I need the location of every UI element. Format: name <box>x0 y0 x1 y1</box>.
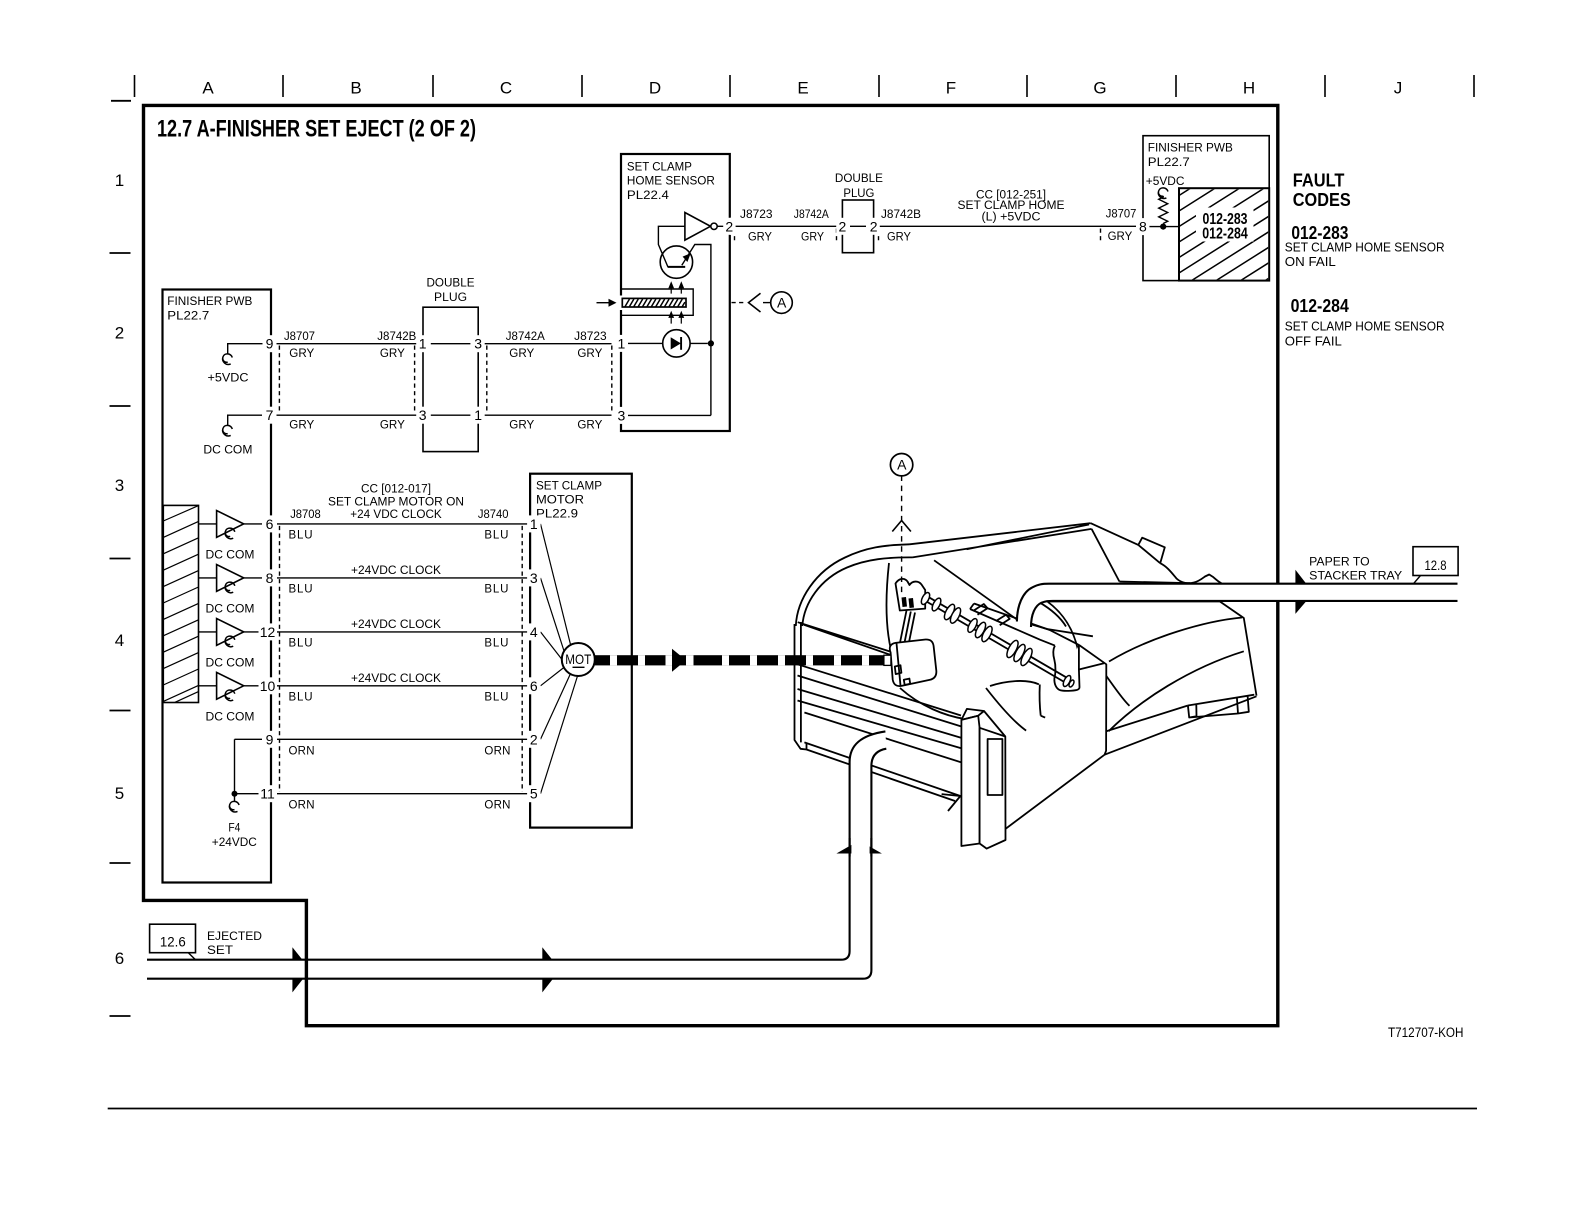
svg-text:9: 9 <box>266 336 274 352</box>
svg-text:BLU: BLU <box>289 584 313 596</box>
svg-text:SET CLAMP MOTOR ON: SET CLAMP MOTOR ON <box>328 496 464 508</box>
svg-text:BLU: BLU <box>484 584 508 596</box>
svg-text:7: 7 <box>266 407 274 423</box>
svg-text:3: 3 <box>115 476 124 495</box>
svg-text:F4: F4 <box>228 823 241 835</box>
svg-text:12: 12 <box>260 624 276 640</box>
svg-text:8: 8 <box>1139 219 1147 235</box>
svg-text:E: E <box>797 79 808 98</box>
svg-text:GRY: GRY <box>1108 231 1133 243</box>
svg-text:5: 5 <box>530 786 538 802</box>
svg-text:J8707: J8707 <box>1106 209 1137 221</box>
svg-text:B: B <box>350 79 361 98</box>
svg-text:DC COM: DC COM <box>206 550 255 562</box>
svg-text:BLU: BLU <box>484 530 508 542</box>
svg-text:3: 3 <box>419 407 427 423</box>
svg-text:1: 1 <box>419 336 427 352</box>
svg-text:6: 6 <box>530 678 538 694</box>
svg-text:J: J <box>1394 79 1403 98</box>
svg-text:8: 8 <box>266 570 274 586</box>
svg-text:PAPER TO: PAPER TO <box>1309 556 1369 568</box>
svg-text:SET CLAMP: SET CLAMP <box>627 161 692 173</box>
svg-text:PLUG: PLUG <box>434 292 467 304</box>
svg-text:DOUBLE: DOUBLE <box>427 278 475 290</box>
svg-text:H: H <box>1243 79 1255 98</box>
svg-text:1: 1 <box>474 407 482 423</box>
svg-text:1: 1 <box>115 171 124 190</box>
svg-text:A: A <box>777 295 787 311</box>
svg-text:+24VDC CLOCK: +24VDC CLOCK <box>351 619 441 631</box>
svg-text:10: 10 <box>260 678 276 694</box>
svg-text:J8723: J8723 <box>574 331 607 343</box>
svg-text:+24VDC: +24VDC <box>212 837 257 849</box>
svg-text:+24VDC CLOCK: +24VDC CLOCK <box>351 673 441 685</box>
svg-text:PL22.9: PL22.9 <box>536 508 578 520</box>
svg-text:F: F <box>946 79 956 98</box>
svg-text:1: 1 <box>530 516 538 532</box>
svg-text:DC COM: DC COM <box>206 712 255 724</box>
svg-text:SET CLAMP HOME SENSOR: SET CLAMP HOME SENSOR <box>1285 241 1445 255</box>
svg-text:3: 3 <box>474 336 482 352</box>
svg-text:FINISHER PWB: FINISHER PWB <box>167 296 252 308</box>
svg-text:J8742B: J8742B <box>881 209 921 221</box>
svg-text:GRY: GRY <box>380 419 405 431</box>
svg-text:SET: SET <box>207 945 233 957</box>
svg-text:PL22.4: PL22.4 <box>627 190 670 202</box>
svg-text:2: 2 <box>115 324 124 343</box>
svg-text:BLU: BLU <box>289 638 313 650</box>
svg-text:GRY: GRY <box>380 348 405 360</box>
svg-text:BLU: BLU <box>289 530 313 542</box>
svg-text:+24 VDC CLOCK: +24 VDC CLOCK <box>350 509 442 521</box>
svg-text:11: 11 <box>260 786 275 802</box>
svg-text:9: 9 <box>266 731 274 747</box>
svg-text:+5VDC: +5VDC <box>208 372 249 384</box>
svg-text:GRY: GRY <box>509 419 534 431</box>
svg-text:GRY: GRY <box>577 348 602 360</box>
svg-text:PL22.7: PL22.7 <box>167 311 209 323</box>
svg-text:CC [012-017]: CC [012-017] <box>361 483 431 495</box>
svg-text:SET CLAMP HOME: SET CLAMP HOME <box>958 200 1065 212</box>
svg-text:5: 5 <box>115 784 124 803</box>
svg-text:J8707: J8707 <box>284 331 315 343</box>
svg-text:ORN: ORN <box>289 745 315 757</box>
svg-text:MOT: MOT <box>565 651 591 667</box>
svg-text:DC COM: DC COM <box>206 658 255 670</box>
svg-text:3: 3 <box>530 570 538 586</box>
svg-text:SET CLAMP HOME SENSOR: SET CLAMP HOME SENSOR <box>1285 320 1445 334</box>
svg-text:4: 4 <box>115 631 124 650</box>
svg-text:J8723: J8723 <box>740 209 773 221</box>
svg-text:BLU: BLU <box>289 692 313 704</box>
svg-text:GRY: GRY <box>289 419 314 431</box>
svg-text:STACKER TRAY: STACKER TRAY <box>1309 570 1402 582</box>
svg-text:DOUBLE: DOUBLE <box>835 173 883 185</box>
svg-text:GRY: GRY <box>887 231 911 243</box>
svg-text:ORN: ORN <box>484 745 510 757</box>
svg-text:4: 4 <box>530 624 538 640</box>
svg-text:+24VDC CLOCK: +24VDC CLOCK <box>351 565 441 577</box>
svg-text:6: 6 <box>266 516 274 532</box>
svg-text:BLU: BLU <box>484 692 508 704</box>
svg-text:DC COM: DC COM <box>206 604 255 616</box>
svg-text:FAULT: FAULT <box>1293 169 1345 190</box>
svg-text:GRY: GRY <box>289 348 314 360</box>
svg-text:A: A <box>202 79 214 98</box>
svg-text:12.8: 12.8 <box>1425 557 1447 573</box>
svg-text:ORN: ORN <box>484 799 510 811</box>
svg-text:PLUG: PLUG <box>843 188 874 200</box>
svg-text:6: 6 <box>115 949 124 968</box>
svg-text:GRY: GRY <box>509 348 534 360</box>
svg-text:J8740: J8740 <box>478 509 509 521</box>
svg-text:G: G <box>1093 79 1106 98</box>
svg-text:J8742A: J8742A <box>794 209 829 221</box>
svg-text:D: D <box>649 79 661 98</box>
svg-text:C: C <box>500 79 512 98</box>
svg-text:2: 2 <box>530 731 538 747</box>
svg-text:J8742A: J8742A <box>506 331 545 343</box>
svg-text:+5VDC: +5VDC <box>1146 176 1185 188</box>
svg-text:GRY: GRY <box>801 232 824 244</box>
svg-text:012-284: 012-284 <box>1291 295 1350 316</box>
svg-text:1: 1 <box>618 335 626 351</box>
svg-text:SET CLAMP: SET CLAMP <box>536 481 602 493</box>
svg-text:GRY: GRY <box>577 419 602 431</box>
svg-text:BLU: BLU <box>484 638 508 650</box>
svg-text:CODES: CODES <box>1293 189 1351 210</box>
svg-text:A: A <box>897 457 907 473</box>
svg-text:T712707-KOH: T712707-KOH <box>1388 1025 1464 1040</box>
svg-text:FINISHER PWB: FINISHER PWB <box>1148 143 1233 155</box>
svg-text:J8708: J8708 <box>290 509 321 521</box>
svg-text:EJECTED: EJECTED <box>207 931 262 943</box>
svg-text:DC COM: DC COM <box>203 445 252 457</box>
svg-text:2: 2 <box>870 218 878 234</box>
svg-text:ON FAIL: ON FAIL <box>1285 255 1336 269</box>
svg-text:(L) +5VDC: (L) +5VDC <box>982 212 1041 224</box>
svg-text:GRY: GRY <box>748 232 772 244</box>
svg-text:2: 2 <box>839 218 847 234</box>
svg-text:12.7 A-FINISHER SET EJECT (2 O: 12.7 A-FINISHER SET EJECT (2 OF 2) <box>157 116 476 143</box>
svg-text:OFF FAIL: OFF FAIL <box>1285 335 1342 349</box>
svg-text:J8742B: J8742B <box>377 331 416 343</box>
svg-text:3: 3 <box>618 407 626 423</box>
svg-text:PL22.7: PL22.7 <box>1148 157 1190 169</box>
svg-text:012-284: 012-284 <box>1202 225 1248 242</box>
svg-text:12.6: 12.6 <box>160 933 186 949</box>
svg-text:ORN: ORN <box>289 799 315 811</box>
svg-text:2: 2 <box>725 218 733 234</box>
svg-text:HOME SENSOR: HOME SENSOR <box>627 176 715 188</box>
svg-text:MOTOR: MOTOR <box>536 494 584 506</box>
